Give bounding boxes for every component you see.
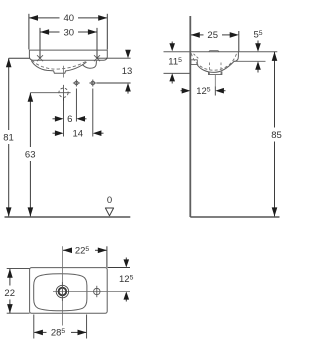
wall line — [189, 16, 191, 217]
svg-text:125: 125 — [196, 86, 211, 97]
datum triangle — [105, 208, 113, 216]
dim 22 reference lines — [7, 269, 30, 314]
drain centerline (front) — [63, 66, 65, 78]
plan horizontal centerline — [53, 291, 130, 293]
left fixing hole X mark — [37, 55, 43, 61]
drain centerline (side) — [214, 75, 216, 87]
dim 5.5 arrows — [257, 41, 259, 73]
svg-text:14: 14 — [73, 129, 84, 140]
dim 12.5 (side) extension line — [214, 86, 216, 95]
tap hole circle (dashed, front) — [59, 88, 68, 97]
right fixing hole X mark — [94, 55, 100, 61]
svg-text:13: 13 — [122, 66, 133, 77]
drain hidden lines (side) — [210, 63, 222, 75]
dim 85 arrows — [272, 52, 278, 217]
dim 30 arrowheads — [40, 29, 97, 35]
trap cover bump — [82, 61, 96, 68]
bowl hidden line (dashed) — [32, 60, 88, 69]
plan tap hole vertical tick — [61, 282, 63, 301]
bowl outer profile — [31, 61, 86, 74]
fixing point 1 cross — [73, 80, 80, 87]
svg-text:30: 30 — [64, 27, 75, 38]
svg-text:115: 115 — [168, 56, 182, 67]
dim 40 arrowheads — [29, 15, 107, 21]
overflow hidden line (side) — [194, 54, 199, 59]
svg-text:0: 0 — [107, 195, 112, 206]
dim 28.5 dimension line — [34, 331, 86, 333]
svg-text:81: 81 — [3, 132, 14, 143]
dim 12.5 (plan) reference lines — [108, 267, 131, 269]
basin rim (front elevation) — [29, 50, 107, 60]
wall bracket — [191, 60, 197, 65]
tap hole cross vertical — [63, 85, 65, 101]
dim 22 arrows — [7, 269, 13, 314]
dim 6 arrows and tails — [53, 118, 87, 120]
dim 30 dimension line — [40, 28, 97, 58]
svg-text:25: 25 — [207, 30, 218, 41]
svg-text:6: 6 — [67, 114, 72, 125]
svg-text:22: 22 — [4, 288, 15, 299]
plan tap hole (double circle) — [56, 285, 68, 297]
dim 13 arrows — [125, 50, 131, 92]
floor line right segment — [190, 216, 279, 218]
dim 11.5 reference lines — [164, 72, 190, 74]
svg-text:125: 125 — [119, 274, 134, 285]
dim 14 arrows and tails — [53, 132, 104, 134]
dim 81 vertical line — [9, 58, 30, 216]
basin top surface line — [164, 51, 278, 53]
tap hole cross horizontal + connector to 63 dim — [30, 92, 70, 94]
svg-text:63: 63 — [25, 149, 36, 160]
dim 63 vertical line — [29, 93, 31, 217]
svg-text:40: 40 — [64, 13, 75, 24]
plan right hole — [94, 286, 100, 297]
apron bottom reference line — [234, 60, 266, 62]
dim 85 vertical line — [274, 52, 276, 217]
dim 12.5 (side) arrows — [181, 90, 226, 92]
dim 6 extension lines — [64, 89, 93, 137]
svg-text:285: 285 — [51, 328, 66, 339]
dim 22.5 dimension — [63, 246, 107, 267]
plan bowl — [34, 274, 87, 311]
bowl hidden line (side, dashed) — [191, 53, 236, 70]
plan vertical centerline — [61, 246, 63, 325]
dim 63 arrows — [28, 93, 34, 217]
dim 28.5 extension lines — [34, 315, 87, 339]
dim 40 dimension line with outward arrows — [29, 14, 107, 50]
dim 11.5 arrows — [171, 42, 173, 84]
floor line left segment — [5, 216, 131, 218]
dim 28.5 arrows — [34, 330, 87, 336]
dim 12.5 (plan) arrows — [125, 258, 127, 302]
dim 81 arrows — [6, 58, 12, 216]
dim 13 reference lines — [97, 58, 131, 83]
svg-text:225: 225 — [75, 246, 90, 257]
dim 22 vertical line — [9, 269, 11, 314]
basin side profile — [197, 52, 238, 73]
fixing point 2 cross — [89, 80, 96, 87]
tap platform notch (side) — [209, 51, 219, 52]
dim 25 dimension — [191, 31, 239, 52]
svg-text:85: 85 — [271, 130, 282, 141]
plan outline rect — [30, 268, 108, 314]
svg-text:55: 55 — [254, 30, 263, 41]
drain flange (side) — [209, 71, 222, 74]
